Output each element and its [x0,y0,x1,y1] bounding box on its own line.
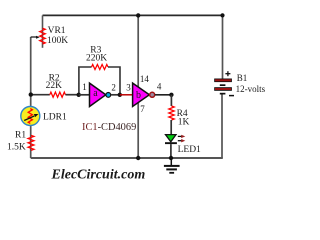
resistor R2 [31,92,79,97]
svg-text:1: 1 [82,82,87,92]
svg-text:R1: R1 [15,131,26,141]
svg-text:100K: 100K [47,36,68,46]
svg-text:b: b [136,90,141,101]
wire left vertical from wiper through LDR R1 to bottom rail [30,37,32,158]
svg-text:ElecCircuit.com: ElecCircuit.com [51,167,146,182]
svg-text:B1: B1 [237,73,248,83]
svg-text:14: 14 [140,74,150,84]
node junction left rail / R2 [29,92,33,96]
svg-text:1K: 1K [178,117,190,127]
resistor R3 feedback loop [79,65,120,95]
LED1 [165,135,185,158]
resistor R1 [28,135,34,150]
wire VR1 branch from top rail [42,15,44,47]
LDR1 [21,107,40,126]
resistor R4 [169,95,174,135]
svg-text:1.5K: 1.5K [7,143,26,153]
svg-text:VR1: VR1 [48,26,66,36]
wire battery top drop [222,15,224,79]
svg-text:LED1: LED1 [178,145,201,155]
node top-right corner [220,13,224,17]
node pin2 junction [118,93,122,97]
svg-text:22K: 22K [46,81,63,91]
wire node2 to inverter b input (red) [120,94,133,96]
wire inverter a output to node 2 [111,94,120,96]
svg-text:4: 4 [157,81,162,91]
wire battery bottom drop [221,94,223,158]
svg-text:3: 3 [126,82,131,92]
svg-text:a: a [93,88,98,99]
wire top rail [43,14,223,16]
wire inverter b output to node 4 [155,94,172,96]
node pin4 junction [169,93,173,97]
svg-text:LDR1: LDR1 [43,113,67,123]
inverter U1b [133,83,155,106]
svg-text:IC1-CD4069: IC1-CD4069 [82,122,136,133]
svg-text:2: 2 [111,82,116,92]
battery B1 [215,71,234,95]
svg-text:7: 7 [140,104,145,114]
wire bottom rail [31,157,223,159]
node LED bottom rail junction [169,156,173,160]
svg-text:12-volts: 12-volts [236,84,266,94]
potentiometer VR1 [31,28,46,44]
inverter U1a [79,83,111,106]
node pin7 bottom rail junction [136,156,140,160]
svg-text:220K: 220K [86,54,107,64]
node pin14 top rail junction [136,13,140,17]
ground [164,158,180,174]
wire IC power pins 14 and 7 vertical [137,15,139,158]
node pin1 junction [77,93,81,97]
